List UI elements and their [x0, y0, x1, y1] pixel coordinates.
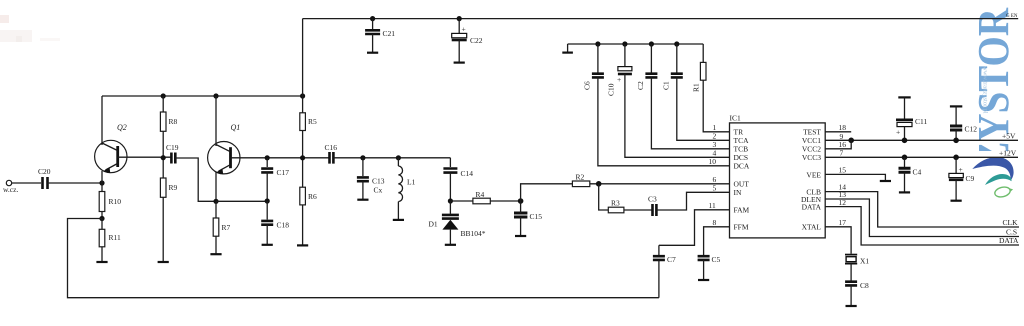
resistor R4	[450, 200, 473, 202]
input terminal w.cz.	[6, 180, 11, 185]
svg-text:R2: R2	[576, 173, 585, 182]
svg-text:C6: C6	[583, 81, 592, 90]
svg-text:10: 10	[709, 157, 717, 166]
resistor R9	[160, 178, 166, 197]
svg-text:C12: C12	[965, 125, 978, 134]
svg-text:R6: R6	[308, 192, 317, 201]
svg-text:18: 18	[839, 123, 847, 132]
crystal X1	[845, 254, 857, 256]
capacitor C21	[372, 19, 374, 29]
capacitor C13 Cx	[362, 158, 364, 176]
svg-text:17: 17	[839, 218, 847, 227]
resistor R10	[101, 183, 103, 192]
wire node up to R2	[521, 184, 573, 201]
node C13	[360, 155, 365, 160]
ground bar C8	[846, 305, 857, 307]
wire Q2 emitter down	[101, 171, 103, 183]
ground bar R6	[297, 244, 308, 246]
svg-text:+12V: +12V	[999, 149, 1017, 158]
capacitor C1	[676, 44, 678, 73]
pin TEST stub	[825, 131, 851, 133]
pin VEE wire + ground	[825, 174, 885, 180]
transistor Q2	[95, 123, 171, 173]
varicap D1	[449, 201, 451, 214]
svg-text:C18: C18	[277, 221, 290, 230]
svg-text:C14: C14	[461, 169, 474, 178]
capacitor C11 (polarized)	[898, 96, 910, 98]
svg-text:FAM: FAM	[734, 206, 750, 215]
node C10	[622, 41, 627, 46]
ground bar C18	[262, 244, 273, 246]
top rail of amplifier	[102, 95, 303, 97]
capacitor C9 (polarized)	[955, 157, 957, 173]
svg-text:R3: R3	[611, 199, 620, 208]
resistor R6	[300, 187, 306, 205]
node C9/VCC3	[953, 155, 959, 161]
svg-text:BB104*: BB104*	[461, 229, 486, 238]
node C21	[370, 16, 375, 21]
node L1	[396, 155, 401, 160]
svg-text:C22: C22	[470, 36, 483, 45]
capacitor C4	[904, 157, 906, 167]
node rail R5	[300, 93, 305, 98]
svg-text:IN: IN	[734, 188, 742, 197]
capacitor C14	[449, 158, 451, 167]
wire Q1 emitter down	[215, 172, 217, 201]
capacitor C2	[650, 44, 652, 73]
svg-text:R11: R11	[109, 233, 121, 242]
node at Q2 emitter bottom	[99, 180, 104, 185]
white box masking watermark under logo	[958, 151, 1024, 326]
ground bar C5	[698, 279, 709, 281]
node rail R8	[161, 93, 166, 98]
svg-text:C7: C7	[667, 255, 676, 264]
resistor R2	[572, 181, 589, 187]
svg-text:15: 15	[839, 166, 847, 175]
ground bar C9	[951, 200, 962, 202]
pin FAM wire to C7	[659, 210, 730, 246]
logo tranzystor.pl swirl	[972, 157, 1013, 198]
svg-text:CLK: CLK	[1003, 218, 1019, 227]
svg-text:www.tranzystor.pl: www.tranzystor.pl	[982, 66, 989, 114]
capacitor C16	[330, 152, 334, 164]
node R2/R3	[596, 181, 602, 187]
capacitor C19	[171, 153, 175, 164]
node C1	[674, 41, 679, 46]
svg-text:R9: R9	[169, 183, 178, 192]
capacitor C3	[653, 204, 657, 216]
ground bar R9	[158, 261, 169, 263]
svg-text:+: +	[462, 25, 466, 34]
capacitor C22 (polarized)	[458, 19, 460, 34]
svg-text:Q1: Q1	[231, 123, 241, 132]
svg-text:w.cz.: w.cz.	[3, 185, 18, 194]
resistor R5	[300, 113, 306, 131]
wire Q2 collector up	[101, 96, 103, 145]
pin VCC3 +12V line	[825, 156, 1018, 158]
svg-text:XTAL: XTAL	[802, 223, 822, 232]
svg-text:+: +	[617, 75, 621, 84]
svg-text:FFM: FFM	[734, 223, 749, 232]
pin VCC1 +5V line	[825, 139, 1018, 141]
svg-text:C11: C11	[915, 117, 927, 126]
svg-text:+: +	[896, 128, 900, 137]
node C17 top	[265, 155, 270, 160]
faint smudges top-left	[0, 15, 9, 23]
wire node down to R3	[599, 184, 609, 210]
wire Q1 collector up	[215, 96, 217, 146]
pin XTAL wire	[825, 227, 851, 254]
node rail Q1	[213, 93, 218, 98]
pin FFM wire to C5	[704, 227, 730, 255]
svg-text:+: +	[959, 165, 963, 174]
node C12/VCC1	[953, 138, 959, 144]
node C4/VCC3	[902, 155, 908, 161]
pin DATA wire	[825, 207, 1019, 245]
svg-text:5: 5	[713, 184, 717, 193]
svg-text:C13: C13	[372, 177, 385, 186]
resistor R8	[162, 96, 164, 112]
capacitor C7	[658, 245, 660, 255]
node C11/VCC1	[902, 138, 908, 144]
svg-text:C21: C21	[383, 29, 396, 38]
capacitor C8	[845, 282, 857, 286]
node R10/R11	[99, 216, 104, 221]
svg-text:C3: C3	[648, 195, 657, 204]
svg-text:R4: R4	[476, 190, 485, 199]
ground bar R11	[96, 261, 107, 263]
resistor R11	[101, 219, 103, 230]
mid rail left stub	[567, 44, 569, 53]
node VCC1/VCC2	[848, 138, 854, 144]
svg-text:C15: C15	[530, 212, 543, 221]
node Q2 base / C19	[161, 155, 166, 160]
svg-text:VCC3: VCC3	[802, 153, 821, 162]
pin CLB wire CLK	[825, 192, 1019, 227]
node C22	[457, 16, 462, 21]
mid rail y=44	[568, 43, 704, 45]
svg-text:11: 11	[709, 201, 716, 210]
node C6	[595, 41, 600, 46]
svg-text:R5: R5	[308, 117, 317, 126]
ground bar C4	[899, 191, 910, 193]
svg-text:DCA: DCA	[734, 162, 750, 171]
ground bar D1	[445, 244, 456, 246]
signal line C16 to C14	[333, 157, 450, 159]
node signal/R5R6	[300, 155, 305, 160]
svg-text:DATA: DATA	[802, 203, 822, 212]
capacitor C10 (polarized)	[624, 44, 626, 67]
resistor R3	[608, 207, 624, 213]
ground bar L1	[393, 219, 404, 221]
transistor Q1	[208, 123, 268, 174]
wire C19 to Q1 emitter node	[175, 158, 216, 201]
capacitor C15	[514, 213, 527, 217]
node C14/D1/R4	[448, 198, 453, 203]
svg-text:Q2: Q2	[117, 123, 127, 132]
node Q1 emitter	[213, 199, 218, 204]
pin DLEN wire CS	[825, 199, 1019, 237]
svg-text:C5: C5	[712, 255, 721, 264]
IC1 box	[730, 123, 826, 238]
svg-text:Cx: Cx	[374, 186, 383, 195]
svg-text:DATA: DATA	[999, 236, 1019, 245]
wire input to C20	[12, 182, 41, 184]
capacitor C12	[950, 105, 962, 107]
wire R2 to pin 6	[590, 183, 730, 185]
resistor R7	[215, 201, 217, 218]
svg-text:G EN: G EN	[1006, 14, 1018, 19]
resistor R1	[702, 44, 704, 62]
svg-text:X1: X1	[860, 257, 869, 266]
svg-text:R8: R8	[169, 117, 178, 126]
svg-text:C20: C20	[38, 167, 51, 176]
ground bar C15	[515, 235, 526, 237]
pin VCC2 wire	[825, 140, 851, 149]
svg-text:C17: C17	[277, 168, 290, 177]
svg-text:C1: C1	[662, 81, 671, 90]
svg-text:7: 7	[840, 149, 844, 158]
svg-text:C8: C8	[860, 281, 869, 290]
svg-text:C2: C2	[636, 81, 645, 90]
ground bar R7	[210, 253, 221, 255]
ground bar C21	[367, 52, 378, 54]
svg-text:C4: C4	[913, 168, 922, 177]
svg-text:D1: D1	[429, 220, 438, 229]
capacitor C6	[597, 44, 599, 73]
inductor L1	[397, 158, 399, 166]
capacitor C20	[43, 177, 48, 189]
ground bar C22	[454, 61, 465, 63]
capacitor C17	[266, 158, 268, 167]
node C17/C18	[265, 198, 270, 203]
svg-text:R1: R1	[692, 83, 701, 92]
node C15	[518, 198, 524, 204]
svg-text:L1: L1	[407, 178, 416, 187]
signal line Q1 base to C16	[267, 157, 329, 159]
svg-text:C19: C19	[166, 143, 179, 152]
svg-text:C16: C16	[325, 143, 338, 152]
wire C20 to node	[48, 182, 103, 184]
wire C3 to pin 5	[656, 192, 729, 210]
svg-text:VEE: VEE	[806, 171, 821, 180]
svg-text:C10: C10	[607, 83, 616, 96]
top supply rail y=19	[303, 18, 1019, 20]
long feedback wire to C7	[68, 219, 659, 298]
svg-text:8: 8	[713, 218, 717, 227]
node C2	[649, 41, 654, 46]
svg-text:R7: R7	[222, 223, 231, 232]
svg-text:C9: C9	[966, 174, 975, 183]
vertical supply line x=302.6	[302, 19, 304, 113]
capacitor C5	[698, 256, 710, 260]
ground bar C13	[357, 199, 368, 201]
svg-text:R10: R10	[109, 197, 122, 206]
capacitor C18	[266, 201, 268, 220]
svg-text:IC1: IC1	[730, 114, 742, 123]
wire emitter node to C17 node	[216, 200, 267, 202]
svg-text:+5V: +5V	[1002, 132, 1016, 141]
